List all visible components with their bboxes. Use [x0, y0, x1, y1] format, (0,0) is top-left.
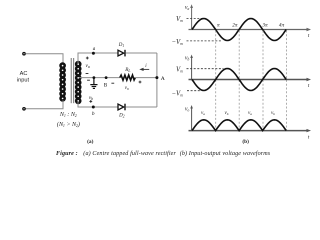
node b [92, 106, 95, 117]
dashed Vm level plot1 [187, 18, 204, 20]
resistor RL [120, 67, 136, 80]
wire D2 to bus [126, 106, 157, 108]
svg-text:AC: AC [20, 71, 28, 77]
node B [104, 76, 108, 88]
waveform vo curve [192, 120, 286, 131]
node a [92, 47, 96, 55]
svg-text:vo: vo [125, 86, 129, 91]
svg-text:N1 : N2: N1 : N2 [59, 112, 77, 118]
transformer secondary winding [76, 62, 80, 103]
current arrow i [139, 64, 149, 71]
dashed -Vm level plot1 [187, 40, 223, 42]
transformer primary winding [61, 64, 65, 101]
label minus vo [111, 82, 114, 84]
dashed -Vm level plot2 [187, 90, 201, 92]
dashed vertical 4pi [286, 31, 288, 131]
svg-text:3π: 3π [262, 22, 268, 28]
svg-text:π: π [217, 23, 220, 29]
svg-text:D2: D2 [118, 114, 125, 119]
dashed vertical pi [215, 31, 217, 131]
label - vb + [87, 80, 92, 103]
label + va - [86, 57, 89, 74]
svg-text:(b): (b) [242, 138, 249, 145]
waveform vb curve [192, 69, 286, 91]
svg-text:2π: 2π [232, 22, 238, 28]
dashed vertical 3pi [262, 31, 264, 131]
svg-text:4π: 4π [279, 22, 285, 28]
wire secondary top [78, 53, 118, 63]
transformer core [71, 58, 74, 103]
svg-text:input: input [17, 78, 30, 84]
dashed Vm level plot2 [187, 68, 224, 70]
wire primary bottom [26, 100, 64, 108]
waveform vb x-axis [189, 79, 308, 81]
waveform vo x-axis [189, 130, 308, 132]
waveform va curve [192, 19, 286, 41]
waveform vo y-axis [191, 107, 193, 131]
waveform va y-axis [191, 7, 193, 30]
wire resistor to A [135, 77, 157, 79]
label AC input [17, 71, 30, 84]
wire right bus [156, 53, 158, 107]
centre tap wire [79, 77, 120, 79]
svg-text:(a): (a) [87, 138, 93, 145]
waveform va x-axis [189, 29, 308, 31]
terminal bottom-left [23, 108, 25, 110]
node A [155, 76, 164, 82]
svg-text:A: A [161, 76, 165, 82]
label plus vo [139, 81, 142, 84]
svg-text:D1: D1 [118, 43, 125, 48]
dashed vertical 2pi [238, 31, 240, 131]
waveform vb y-axis [191, 57, 193, 80]
ground [90, 78, 97, 89]
junction dot ground [93, 76, 96, 79]
wire D1 to bus [126, 52, 157, 54]
wire secondary bottom [78, 102, 118, 107]
svg-text:Figure :(a) Centre tapped full: Figure :(a) Centre tapped full-wave rect… [56, 150, 271, 157]
terminal top-left [23, 53, 25, 55]
wire primary top [26, 54, 64, 64]
diode D2 [118, 104, 126, 119]
diode D1 [118, 43, 126, 56]
